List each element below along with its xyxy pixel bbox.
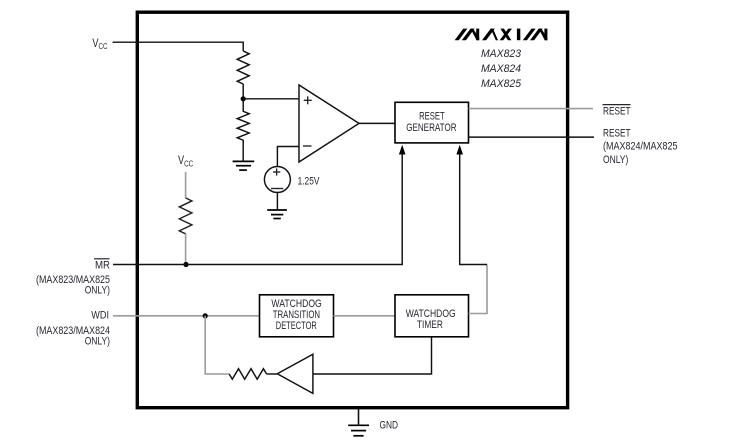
svg-text:GND: GND (380, 419, 399, 431)
wire timer to reset generator (right loop) (469, 265, 488, 314)
svg-text:MR: MR (95, 260, 110, 272)
logo letter M1 (455, 29, 468, 41)
svg-text:TIMER: TIMER (417, 319, 443, 331)
wire buffer to resistor (267, 373, 278, 375)
wire VCC input (113, 42, 244, 51)
reset generator box U2 (395, 102, 469, 143)
svg-text:VCC: VCC (92, 36, 107, 51)
svg-text:MAX825: MAX825 (481, 78, 522, 90)
svg-text:ONLY): ONLY) (85, 336, 110, 348)
logo letter M2 (523, 29, 536, 41)
source minus symbol (271, 188, 283, 190)
wire WDI line (gray) (113, 315, 260, 317)
svg-text:1.25V: 1.25V (298, 175, 320, 187)
wire RESET-bar output (gray) (469, 108, 594, 110)
arrowhead timer to reset generator (456, 145, 463, 155)
ground GND pin (348, 425, 369, 436)
node MR (183, 262, 188, 267)
wire RESET output (469, 136, 595, 138)
wire source to ground (276, 193, 278, 210)
wire VCC2 to resistor (185, 172, 187, 198)
svg-text:RESET: RESET (603, 105, 631, 117)
wire MR line (113, 154, 402, 265)
logo letter X (500, 29, 512, 41)
watchdog transition detector box U3 (260, 295, 334, 337)
wire minus input (277, 147, 299, 167)
buffer B1 (left-pointing) (277, 354, 313, 393)
ground divider (233, 161, 255, 170)
svg-text:RESET: RESET (603, 128, 631, 140)
logo letter I (517, 29, 520, 41)
op-amp comparator U1 (299, 85, 359, 162)
svg-text:WDI: WDI (91, 310, 109, 322)
resistor R1 (237, 51, 249, 84)
watchdog timer box U4 (395, 295, 469, 337)
node WDI (203, 313, 208, 318)
resistor R3 (179, 198, 192, 234)
label RESET-bar (603, 104, 631, 106)
svg-text:MAX824: MAX824 (481, 63, 521, 75)
Maxim logo (455, 29, 548, 41)
wire GND stub (358, 409, 360, 425)
wire timer bottom to buffer input (313, 337, 432, 374)
node divider (241, 96, 246, 101)
plus input symbol (304, 96, 312, 104)
svg-text:MAX823: MAX823 (481, 48, 522, 60)
svg-text:VCC: VCC (178, 153, 193, 168)
wire R3 to MR node (185, 234, 187, 265)
wire comparator output (359, 122, 395, 124)
wire node to comparator + (243, 98, 299, 100)
svg-text:ONLY): ONLY) (85, 285, 110, 297)
IC boundary box (137, 12, 567, 408)
wire detector to timer (gray) (334, 315, 396, 317)
svg-text:GENERATOR: GENERATOR (406, 122, 456, 134)
ground source (267, 210, 287, 219)
svg-text:DETECTOR: DETECTOR (276, 320, 317, 332)
svg-text:(MAX824/MAX825: (MAX824/MAX825 (603, 140, 678, 152)
voltage reference source 1.25V (264, 167, 290, 193)
label MR-bar (94, 258, 110, 260)
svg-text:RESET: RESET (419, 111, 445, 123)
arrowhead MR to reset generator (399, 145, 406, 155)
source plus symbol (273, 168, 280, 175)
resistor R4 (229, 369, 266, 380)
svg-text:ONLY): ONLY) (603, 154, 628, 166)
resistor R2 (237, 99, 249, 162)
logo letter A (482, 29, 495, 41)
minus input symbol (303, 145, 312, 147)
wire R1 to node (242, 84, 244, 99)
wire WDI node down to feedback (205, 316, 229, 374)
wire loop top segment (460, 154, 487, 265)
